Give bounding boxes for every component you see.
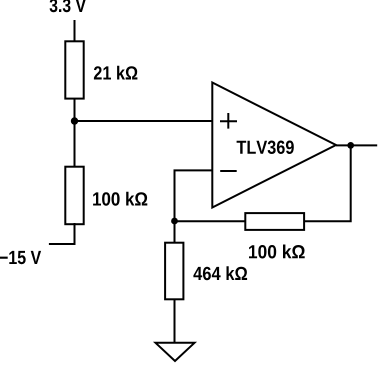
resistor R3 feedback body — [245, 213, 304, 230]
node A junction dot — [71, 117, 78, 124]
resistor R2 value 100 kOhm — [93, 192, 147, 206]
wire R1 to R2 — [74, 98, 76, 167]
wire op-amp inverting input to node B — [175, 170, 213, 221]
power rail label 3.3 V — [50, 0, 86, 12]
output node junction dot — [347, 142, 354, 149]
wire node A to op-amp noninverting input — [75, 120, 213, 122]
resistor R4 body — [165, 243, 183, 300]
resistor R1 body — [65, 41, 83, 98]
op-amp label TLV369 — [237, 141, 294, 155]
op-amp inverting pin minus marker — [220, 170, 237, 172]
op-amp noninverting pin plus marker — [220, 113, 237, 129]
wire op-amp output — [336, 144, 377, 146]
wire R4 to ground — [174, 299, 176, 343]
wire node B to R4 — [174, 221, 176, 244]
node B junction dot — [171, 218, 178, 225]
power rail label -15 V — [0, 251, 41, 264]
wire R2 to -15V rail — [49, 223, 75, 244]
wire node B to R3 — [175, 220, 247, 222]
wire R3 to output node — [304, 146, 351, 221]
op-amp U1 body — [212, 83, 336, 208]
resistor R3 value 100 kOhm — [249, 245, 305, 259]
ground symbol — [156, 343, 195, 361]
resistor R4 value 464 kOhm — [193, 266, 247, 280]
resistor R1 value 21 kOhm — [94, 66, 137, 80]
wire 3.3V rail to R1 — [74, 20, 76, 42]
resistor R2 body — [65, 167, 83, 225]
